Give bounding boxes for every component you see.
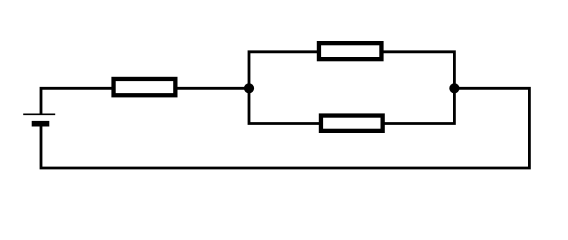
resistor R3 [321,116,383,131]
node B junction dot [449,83,459,93]
wire node A up and right to resistor R2 (top branch left) [249,52,320,89]
node A junction dot [244,83,254,93]
battery positive plate (long thin line) [23,113,55,115]
wire R2 right to node B (top branch right) [382,52,454,89]
resistor R1 [114,79,176,95]
resistor R2 [319,43,382,59]
wire R3 right to node B (bottom branch right) [382,88,454,123]
wire node A down and right to resistor R3 (bottom branch left) [249,88,322,123]
wire node B right, down and along bottom back to battery negative terminal [41,88,529,168]
wire R1 to node A [176,87,250,90]
wire battery positive terminal up and right to resistor R1 [41,88,115,114]
battery negative plate (short thick bar) [32,121,50,127]
